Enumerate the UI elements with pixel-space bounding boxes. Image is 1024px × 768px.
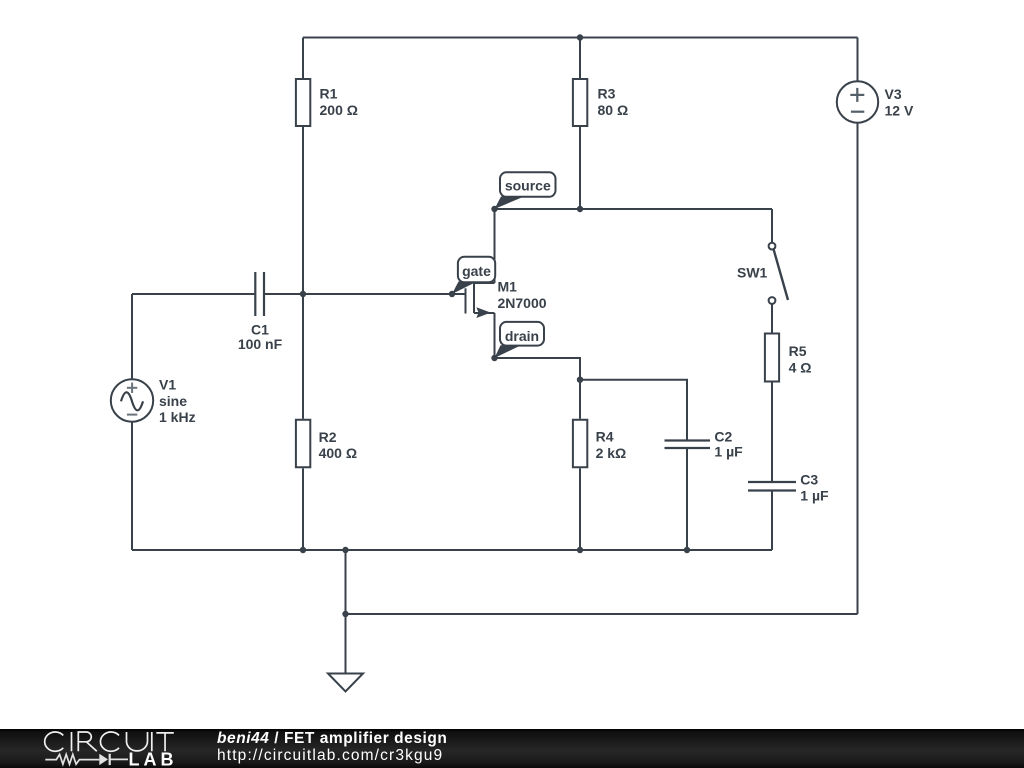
svg-text:gate: gate	[462, 263, 491, 279]
wire R4 top lead	[579, 380, 581, 419]
logo letter T	[156, 733, 174, 751]
node drain	[491, 355, 497, 361]
svg-text:sine: sine	[159, 393, 187, 409]
node bottom/C2	[684, 547, 690, 553]
logo letter U	[127, 732, 148, 751]
transistor M1	[466, 209, 495, 358]
wire bottom rail	[132, 549, 772, 551]
V3 plus minus	[850, 88, 864, 112]
voltage source V1	[111, 379, 153, 421]
svg-text:V1: V1	[159, 377, 176, 393]
svg-text:source: source	[505, 177, 551, 193]
wire ground lead	[345, 614, 347, 674]
V1 plus minus	[127, 383, 137, 415]
node bottom/R4	[577, 547, 583, 553]
flag drain	[495, 322, 545, 358]
node ground-rail	[342, 611, 348, 617]
wire gate row left	[132, 293, 255, 295]
wire V3 top lead	[857, 38, 859, 82]
logo CIRCUIT LAB	[0, 729, 220, 768]
svg-text:2N7000: 2N7000	[498, 295, 547, 311]
svg-text:R1: R1	[320, 86, 338, 102]
logo letter I	[71, 732, 73, 751]
wire switch bottom lead	[771, 304, 773, 333]
node bottom/R2	[300, 547, 306, 553]
resistor R5	[765, 334, 779, 382]
logo letter C	[45, 732, 64, 751]
svg-text:LAB: LAB	[129, 750, 178, 768]
logo letter I	[151, 732, 153, 751]
svg-text:2 kΩ: 2 kΩ	[596, 445, 627, 461]
node gate	[449, 291, 455, 297]
svg-text:12 V: 12 V	[885, 103, 914, 119]
switch SW1	[769, 243, 788, 304]
wire gate row right	[264, 293, 466, 295]
svg-text:C3: C3	[800, 472, 818, 488]
flag gate	[452, 257, 495, 294]
wire R1 bottom to R2 top	[302, 127, 304, 419]
voltage source V3	[837, 81, 878, 122]
wire drain row	[495, 358, 581, 380]
flag source	[495, 172, 556, 209]
node source-row/R3	[577, 206, 583, 212]
wire R5 bottom to C3	[771, 383, 773, 482]
logo resistor zigzag	[45, 754, 99, 764]
resistor R2	[296, 420, 310, 468]
wire R4 bottom lead	[579, 468, 581, 550]
node drain-junction	[577, 377, 583, 383]
svg-text:drain: drain	[505, 328, 539, 344]
resistor R3	[573, 79, 587, 126]
wire V3 bottom lead	[857, 123, 859, 614]
node bottom/ground-stub	[342, 547, 348, 553]
wire R1 top lead	[302, 38, 304, 79]
logo diode	[99, 754, 108, 765]
svg-text:V3: V3	[885, 86, 902, 102]
node gate-row/R1R2	[300, 291, 306, 297]
wire top rail	[303, 37, 858, 39]
wire C3 bottom lead	[771, 492, 773, 551]
logo letter C	[100, 732, 119, 751]
footer bar	[0, 729, 1024, 768]
resistor R1	[296, 79, 310, 126]
svg-text:1 µF: 1 µF	[800, 488, 829, 504]
logo letter R	[78, 732, 97, 751]
svg-text:M1: M1	[498, 279, 518, 295]
svg-text:R4: R4	[596, 429, 614, 445]
wire ground stub	[345, 550, 347, 614]
svg-text:R3: R3	[598, 86, 616, 102]
svg-text:R5: R5	[789, 343, 807, 359]
wire switch top lead	[771, 209, 773, 243]
svg-text:1 µF: 1 µF	[714, 444, 743, 460]
node source	[491, 206, 497, 212]
resistor R4	[573, 420, 587, 468]
wire source row	[495, 208, 773, 210]
svg-text:400 Ω: 400 Ω	[319, 445, 357, 461]
ground	[328, 674, 363, 692]
wire C2 bottom lead	[686, 449, 688, 550]
wire R2 bottom lead	[302, 468, 304, 550]
svg-text:80 Ω: 80 Ω	[598, 102, 629, 118]
capacitor C2	[665, 441, 711, 449]
svg-text:100 nF: 100 nF	[238, 336, 283, 352]
wire V1 top lead	[131, 294, 133, 380]
svg-text:R2: R2	[319, 429, 337, 445]
wire R3 top lead	[579, 38, 581, 79]
svg-text:SW1: SW1	[737, 265, 768, 281]
footer title	[217, 730, 447, 748]
capacitor C3	[748, 482, 796, 491]
svg-text:4 Ω: 4 Ω	[789, 360, 812, 376]
svg-text:C2: C2	[714, 429, 732, 445]
footer url	[217, 747, 443, 765]
wire V1 bottom lead	[131, 422, 133, 550]
capacitor C1	[255, 272, 264, 316]
wire R3 bottom lead	[579, 127, 581, 209]
wire ground rail	[346, 613, 858, 615]
svg-text:200 Ω: 200 Ω	[320, 102, 358, 118]
wire drain junction to C2	[580, 380, 687, 440]
node top-rail/R3	[577, 34, 583, 40]
svg-text:1 kHz: 1 kHz	[159, 409, 196, 425]
